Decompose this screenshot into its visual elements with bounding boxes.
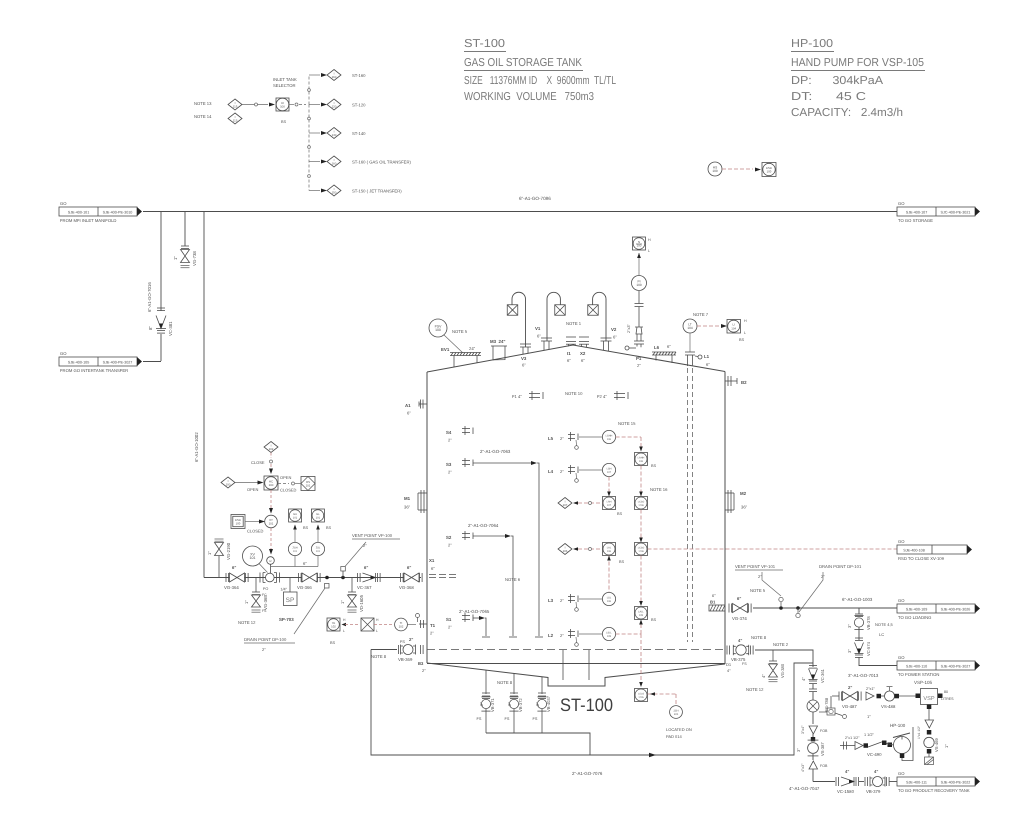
junction vent point VP-100 (341, 576, 345, 580)
signal LAHH to LCSO (640, 466, 642, 497)
svg-text:2": 2" (848, 685, 852, 690)
svg-text:CLOSE: CLOSE (251, 460, 265, 465)
pipe VB-375 to pump suction header (755, 650, 813, 663)
check valve VC-1580 4in (835, 777, 837, 786)
drain valve VB-372 (513, 673, 515, 694)
reducer 3x4 (809, 726, 818, 734)
indicator LI-104 (727, 320, 741, 334)
svg-text:3"x4": 3"x4" (801, 725, 805, 734)
svg-text:2": 2" (479, 702, 484, 706)
svg-text:VB-4037: VB-4037 (546, 695, 551, 712)
svg-text:120: 120 (332, 104, 337, 108)
svg-text:8": 8" (148, 326, 153, 330)
signal TY to TI (374, 624, 392, 626)
svg-text:L: L (744, 331, 746, 335)
svg-text:SJE-400-PE-3027: SJE-400-PE-3027 (941, 665, 971, 669)
signal LSLL to LALL (616, 633, 641, 635)
selector UI-100 (276, 98, 289, 111)
svg-text:ST-140: ST-140 (352, 131, 366, 136)
svg-text:F1 4": F1 4" (512, 394, 522, 399)
branch wire to ST-150 ( JET TRANSFER) (309, 190, 320, 192)
svg-text:BS: BS (303, 526, 309, 530)
svg-text:DT: 45 C: DT: 45 C (791, 91, 866, 103)
svg-text:V2: V2 (611, 327, 617, 332)
svg-text:113: 113 (233, 118, 238, 122)
svg-text:BS: BS (326, 526, 332, 530)
indicator TI-102 (395, 618, 408, 631)
svg-text:101: 101 (269, 522, 274, 526)
svg-text:TO GO PRODUCT RECOVERY TANK: TO GO PRODUCT RECOVERY TANK (898, 788, 970, 793)
svg-text:SJE-400-PE-3027: SJE-400-PE-3027 (103, 361, 133, 365)
vent V2 with gooseneck (593, 292, 606, 341)
drain collection loop pipe (371, 650, 813, 756)
svg-text:VS-387: VS-387 (820, 742, 825, 756)
svg-text:2": 2" (560, 436, 564, 441)
svg-text:ST-100: ST-100 (560, 695, 613, 715)
svg-text:NOTE 12: NOTE 12 (238, 620, 256, 625)
svg-text:FS: FS (505, 717, 510, 721)
svg-text:NOTE 6: NOTE 6 (505, 577, 521, 582)
svg-text:VB-371: VB-371 (490, 698, 495, 712)
tank ST-100 shell (427, 345, 725, 372)
svg-text:ST-120: ST-120 (352, 103, 366, 108)
alarm LAL-106 row (558, 544, 572, 555)
nozzle P1 with PVRV and PI-100 (625, 346, 629, 350)
hand switch HS-101 (301, 477, 315, 491)
svg-text:FROM GO INTERTANK TRANSFER: FROM GO INTERTANK TRANSFER (60, 368, 128, 373)
svg-text:2"-A1-GO-7076: 2"-A1-GO-7076 (572, 771, 603, 776)
svg-text:HP-100: HP-100 (890, 723, 906, 728)
svg-text:NOTE 7: NOTE 7 (693, 312, 709, 317)
nozzle I1 (566, 336, 576, 338)
svg-text:FS: FS (533, 717, 538, 721)
branch to power station (858, 608, 860, 614)
svg-text:NOTE 15: NOTE 15 (618, 421, 636, 426)
nozzle T1 thermowell (419, 623, 427, 625)
svg-text:VG-364: VG-364 (224, 585, 239, 590)
svg-text:160: 160 (332, 75, 337, 79)
svg-text:36": 36" (404, 505, 411, 510)
wire branch inlet down to intertank line (160, 212, 162, 312)
valve VG-364 6in (225, 573, 227, 582)
svg-text:NOTE 8: NOTE 8 (497, 680, 513, 685)
svg-text:S1: S1 (446, 617, 452, 622)
svg-text:VENT POINT VP-100: VENT POINT VP-100 (352, 533, 393, 538)
svg-text:I1: I1 (567, 351, 571, 356)
svg-text:S4: S4 (446, 430, 452, 435)
svg-text:BS: BS (281, 120, 287, 124)
svg-text:H: H (648, 238, 651, 242)
svg-text:VG-487: VG-487 (842, 704, 857, 709)
svg-text:NOTE 13: NOTE 13 (194, 101, 212, 106)
svg-text:101: 101 (316, 516, 321, 519)
branch wire to ST-160 (309, 74, 320, 76)
valve VG-738 1in (181, 245, 189, 247)
svg-text:1/4": 1/4" (280, 588, 287, 592)
valve VG-374 6in (728, 604, 730, 613)
svg-text:ST-150 ( JET TRANSFER): ST-150 ( JET TRANSFER) (352, 189, 402, 194)
svg-text:TO GO STORAGE: TO GO STORAGE (898, 218, 933, 223)
branch wire to ST-160 ( GAS OIL TRANSFER) (309, 161, 320, 163)
signal XY-101 to actuator (270, 528, 272, 551)
svg-text:SJC-400-PE-3021: SJC-400-PE-3021 (941, 211, 971, 215)
svg-text:NOTE 16: NOTE 16 (650, 487, 668, 492)
instrument PI-100 (632, 276, 647, 291)
svg-text:F2 4": F2 4" (597, 394, 607, 399)
signal I-100 to HC-100 (235, 482, 258, 484)
nozzle B2 (725, 380, 737, 382)
svg-text:2": 2" (560, 469, 564, 474)
svg-text:NOTE 5: NOTE 5 (750, 588, 766, 593)
svg-text:6": 6" (581, 358, 585, 363)
svg-text:3": 3" (796, 748, 801, 752)
svg-text:ZSL: ZSL (316, 546, 321, 549)
signal LAL square down to LSL (608, 556, 610, 593)
signal to RSD close XV-109 (648, 548, 898, 550)
svg-text:6"-A1-GO-7086: 6"-A1-GO-7086 (519, 196, 551, 201)
svg-text:6": 6" (522, 363, 526, 368)
svg-text:6": 6" (431, 566, 435, 571)
svg-text:EV1: EV1 (441, 347, 450, 352)
svg-text:LSLL: LSLL (606, 631, 612, 634)
interlock square LCSO-1706 upper (635, 497, 648, 510)
svg-text:SP-703: SP-703 (279, 617, 294, 622)
svg-text:SP: SP (286, 597, 295, 604)
svg-text:6": 6" (407, 565, 411, 570)
svg-text:LSH: LSH (607, 467, 612, 470)
svg-text:2": 2" (448, 470, 452, 475)
wire VS-488 to VSP (899, 695, 916, 697)
svg-text:VC-490: VC-490 (867, 752, 882, 757)
signal LSHH-106 to LAHH-106 (616, 436, 641, 438)
svg-text:100: 100 (636, 283, 642, 287)
svg-text:A1: A1 (405, 403, 411, 408)
svg-text:VB-378: VB-378 (866, 616, 871, 630)
svg-text:NOTE 8: NOTE 8 (751, 635, 767, 640)
svg-text:SJE-400-107: SJE-400-107 (906, 211, 928, 215)
svg-text:6": 6" (567, 358, 571, 363)
branch wire to ST-120 (309, 104, 320, 106)
svg-text:2": 2" (448, 543, 452, 548)
sample point SP-703 (289, 578, 291, 593)
switch 2SH-105 (670, 706, 683, 719)
svg-text:1": 1" (173, 256, 178, 260)
signal LALL down to LSLO (640, 634, 642, 684)
svg-text:4": 4" (874, 769, 878, 774)
svg-text:2": 2" (535, 702, 540, 706)
svg-text:36": 36" (741, 505, 748, 510)
svg-text:GO: GO (898, 771, 905, 776)
svg-text:WORKING VOLUME 750m3: WORKING VOLUME 750m3 (464, 91, 594, 103)
svg-text:1": 1" (867, 714, 871, 719)
svg-text:X1: X1 (429, 558, 435, 563)
svg-text:L: L (376, 629, 378, 633)
svg-text:4"-A1-GO-7047: 4"-A1-GO-7047 (789, 786, 820, 791)
internal drop pipes to sump (562, 650, 564, 680)
signal TT to TY (345, 624, 358, 626)
branch wire to ST-140 (309, 132, 320, 134)
svg-text:VG-380: VG-380 (780, 663, 785, 678)
svg-text:1": 1" (340, 600, 345, 604)
valve VB-379 4in (859, 781, 864, 783)
svg-text:VC-381: VC-381 (168, 321, 173, 336)
svg-text:DRAIN POINT DP-100: DRAIN POINT DP-100 (244, 637, 287, 642)
svg-text:CLOSED: CLOSED (280, 488, 297, 493)
svg-text:BS: BS (330, 641, 336, 645)
svg-text:L4: L4 (548, 469, 554, 474)
svg-text:SJE-400-101: SJE-400-101 (68, 211, 90, 215)
svg-text:BS: BS (651, 464, 657, 468)
signal diamond to HC-100 (270, 453, 272, 459)
hand controller HC-100 (264, 476, 278, 490)
svg-text:VC-574: VC-574 (866, 641, 871, 656)
svg-text:BS: BS (619, 560, 625, 564)
svg-text:X2: X2 (580, 351, 586, 356)
signal LCSO chain vertical (640, 510, 642, 541)
drain valve VB-4037 (541, 677, 543, 694)
svg-text:VS-469: VS-469 (934, 738, 939, 752)
svg-text:VENT POINT VP-101: VENT POINT VP-101 (735, 564, 776, 569)
svg-text:1705: 1705 (638, 696, 644, 699)
nozzle L1 (685, 351, 695, 353)
svg-text:1 1/2": 1 1/2" (864, 733, 874, 737)
interlock LSLO-1705 (635, 689, 648, 702)
svg-text:1"x1 1/2": 1"x1 1/2" (917, 725, 921, 739)
svg-text:VG-374: VG-374 (732, 616, 747, 621)
svg-text:SJE-400-PE-3010: SJE-400-PE-3010 (103, 211, 133, 215)
valve VD-1605 1in (351, 578, 353, 593)
svg-text:2"-A1-GO-7065: 2"-A1-GO-7065 (459, 609, 490, 614)
svg-text:FOB: FOB (820, 764, 828, 768)
svg-text:LSHH: LSHH (606, 434, 613, 437)
svg-text:SJE-400-PE-3026: SJE-400-PE-3026 (941, 608, 971, 612)
valve VB-378 3in (855, 613, 863, 615)
signal LT-104 to LI-104 (697, 325, 720, 327)
position switch ZSL-101 (317, 556, 319, 567)
svg-text:2": 2" (560, 633, 564, 638)
svg-text:BS: BS (739, 338, 745, 342)
svg-text:ST-160: ST-160 (352, 73, 366, 78)
outlet valve VB-375 4in (726, 646, 728, 655)
reducer 4x3 (809, 761, 818, 769)
svg-text:101: 101 (316, 550, 321, 553)
svg-text:100: 100 (269, 483, 274, 487)
svg-text:M2: M2 (740, 491, 747, 496)
check valve VC-367 6in (357, 573, 359, 582)
svg-text:DRAIN POINT DP-101: DRAIN POINT DP-101 (819, 564, 862, 569)
svg-text:115: 115 (233, 104, 238, 108)
svg-text:80: 80 (944, 690, 948, 694)
sight glass SG-788 (812, 692, 814, 700)
svg-text:6": 6" (232, 565, 236, 570)
svg-text:4": 4" (801, 677, 806, 681)
svg-text:LC: LC (879, 632, 884, 637)
svg-text:B1: B1 (710, 600, 716, 605)
svg-text:VB-369: VB-369 (398, 657, 413, 662)
svg-text:OPEN: OPEN (247, 487, 258, 492)
svg-text:L1: L1 (704, 354, 710, 359)
svg-text:4": 4" (738, 638, 742, 643)
svg-text:S3: S3 (446, 462, 452, 467)
svg-text:2": 2" (448, 438, 452, 443)
svg-text:100: 100 (712, 169, 718, 173)
svg-text:2": 2" (262, 647, 266, 652)
svg-text:SJE-400-105: SJE-400-105 (68, 361, 90, 365)
svg-text:106: 106 (563, 549, 568, 553)
svg-text:FS: FS (477, 717, 482, 721)
svg-text:105: 105 (639, 614, 644, 617)
nozzle A1 (419, 403, 427, 405)
svg-text:GO: GO (898, 598, 905, 603)
drain valve VG-380 4in (772, 650, 774, 661)
svg-text:LOCATED ON: LOCATED ON (666, 727, 692, 732)
signal LSH-107 down to LAH-107 (608, 477, 610, 493)
svg-text:SJE-400-108: SJE-400-108 (903, 549, 925, 553)
svg-text:SJE-400-109: SJE-400-109 (906, 608, 928, 612)
svg-text:FS: FS (742, 662, 747, 666)
pipe 6in-A1-GO-1002 vertical (203, 212, 205, 578)
svg-text:SJE-400-111: SJE-400-111 (906, 781, 927, 785)
suction line VS-469 from VSP (928, 709, 930, 720)
svg-text:GO: GO (60, 351, 67, 356)
svg-text:VD-1605: VD-1605 (359, 594, 364, 612)
svg-text:BS: BS (651, 618, 657, 622)
svg-text:6"-A1-GO-1003: 6"-A1-GO-1003 (842, 597, 873, 602)
svg-text:HAND PUMP FOR VSP-105: HAND PUMP FOR VSP-105 (791, 57, 924, 69)
svg-text:LSL: LSL (607, 596, 612, 599)
svg-text:NOTE 5: NOTE 5 (452, 329, 468, 334)
svg-text:R: R (269, 559, 271, 563)
svg-text:SELECTOR: SELECTOR (273, 83, 296, 88)
svg-text:6": 6" (364, 565, 368, 570)
svg-text:VG-738: VG-738 (192, 251, 197, 266)
svg-text:1706: 1706 (638, 504, 644, 507)
svg-text:SIZE 11376MM ID X 9600mm: SIZE 11376MM ID X 9600mm TL/TL (464, 75, 616, 87)
svg-text:101: 101 (306, 483, 311, 487)
svg-text:6": 6" (712, 593, 716, 598)
svg-text:1": 1" (244, 600, 249, 604)
stilling well from L1 (687, 368, 689, 642)
svg-text:101: 101 (293, 516, 298, 519)
signal to 2SH-105 (648, 693, 677, 695)
svg-text:VS-488: VS-488 (881, 704, 896, 709)
valve VG-368 6in (400, 573, 402, 582)
branch with valve VG-738 (184, 212, 186, 247)
signal wire UI-100 to distribution (289, 104, 294, 106)
svg-text:101: 101 (293, 550, 298, 553)
signal wire diamond to UI-100 (242, 104, 268, 106)
svg-text:RSD TO CLOSE XV-109: RSD TO CLOSE XV-109 (898, 556, 945, 561)
svg-text:NOTE 1: NOTE 1 (566, 321, 582, 326)
signal HC-100 to HS-101 (278, 483, 289, 485)
svg-text:2"-A1-GO-7064: 2"-A1-GO-7064 (468, 523, 499, 528)
svg-text:TO POWER STATION: TO POWER STATION (898, 672, 939, 677)
svg-text:4": 4" (845, 769, 849, 774)
svg-text:3": 3" (847, 649, 852, 653)
svg-text:V3: V3 (521, 356, 527, 361)
svg-text:6"-A1-GO-1002: 6"-A1-GO-1002 (194, 432, 199, 462)
svg-text:VB-372: VB-372 (518, 698, 523, 712)
valve VS-488 (877, 694, 882, 699)
svg-text:107: 107 (607, 504, 612, 507)
svg-text:150: 150 (332, 190, 337, 194)
svg-text:OPEN: OPEN (280, 475, 291, 480)
valve VG-366 6in (298, 573, 300, 582)
vent V3 with gooseneck (512, 292, 526, 347)
manway M1 36in (418, 492, 427, 494)
svg-text:2"x1 1/2": 2"x1 1/2" (845, 736, 860, 740)
svg-text:2": 2" (507, 702, 512, 706)
svg-text:NOTE 10: NOTE 10 (565, 391, 583, 396)
svg-text:S2: S2 (446, 535, 452, 540)
svg-text:104: 104 (687, 326, 693, 330)
svg-text:GO: GO (898, 539, 905, 544)
svg-text:B3: B3 (418, 661, 424, 666)
svg-text:BS: BS (617, 512, 623, 516)
ball valve XV-101 body (259, 573, 261, 583)
svg-text:M3 24": M3 24" (490, 339, 506, 344)
instrument diamond I-113 (228, 113, 242, 124)
transmitter TT-102 (327, 618, 340, 631)
valve XV-101 (243, 546, 263, 566)
wire ESD to XY (245, 521, 260, 523)
svg-text:ZSH: ZSH (293, 546, 298, 549)
svg-text:VC-367: VC-367 (357, 585, 372, 590)
svg-text:VG-366: VG-366 (297, 585, 312, 590)
svg-text:2"x1": 2"x1" (866, 687, 875, 691)
valve VS-387 3in (811, 737, 815, 741)
svg-text:2": 2" (637, 363, 641, 368)
check valve VC-361 4in (809, 665, 817, 667)
svg-text:L5: L5 (548, 436, 554, 441)
svg-text:2SH: 2SH (673, 709, 678, 712)
svg-text:INLET TANK: INLET TANK (273, 77, 297, 82)
instrument square PY-100 (633, 237, 646, 250)
product recovery pipe 4in-A1-GO-7047 (813, 781, 835, 783)
svg-text:100: 100 (435, 328, 441, 332)
svg-text:VG-368: VG-368 (399, 585, 414, 590)
valve VG-2190 1in (218, 556, 220, 578)
svg-text:H: H (744, 319, 747, 323)
svg-text:6": 6" (706, 362, 710, 367)
vent V1 with gooseneck (547, 292, 560, 341)
svg-text:100: 100 (226, 482, 231, 486)
svg-text:106: 106 (607, 600, 612, 603)
diamond I-107 with signal (558, 498, 572, 509)
svg-text:24": 24" (469, 346, 476, 351)
svg-text:FOB: FOB (820, 729, 828, 733)
junction drain point DP-100 (325, 576, 329, 580)
pipe down to product recovery line (812, 769, 814, 782)
svg-text:2": 2" (758, 574, 762, 579)
interlock square LCSO-1706 mid (635, 543, 648, 556)
svg-text:2"-A1-GO-7063: 2"-A1-GO-7063 (480, 449, 511, 454)
position switch ZSH-101 (294, 556, 296, 567)
svg-text:102: 102 (269, 447, 274, 451)
svg-text:L: L (648, 249, 650, 253)
alarm LAHH-106 (635, 453, 648, 466)
svg-text:P1: P1 (636, 356, 642, 361)
valve VG-365 1in (255, 578, 257, 593)
solenoid XY-101 (265, 515, 278, 528)
svg-text:VB-379: VB-379 (866, 789, 881, 794)
svg-text:L2: L2 (548, 633, 554, 638)
svg-text:L6: L6 (654, 345, 660, 350)
instrument diamond I-102 (264, 442, 278, 453)
svg-text:SJE-400-PE-3022: SJE-400-PE-3022 (941, 781, 971, 785)
svg-text:3": 3" (847, 624, 852, 628)
svg-text:GO: GO (898, 655, 905, 660)
